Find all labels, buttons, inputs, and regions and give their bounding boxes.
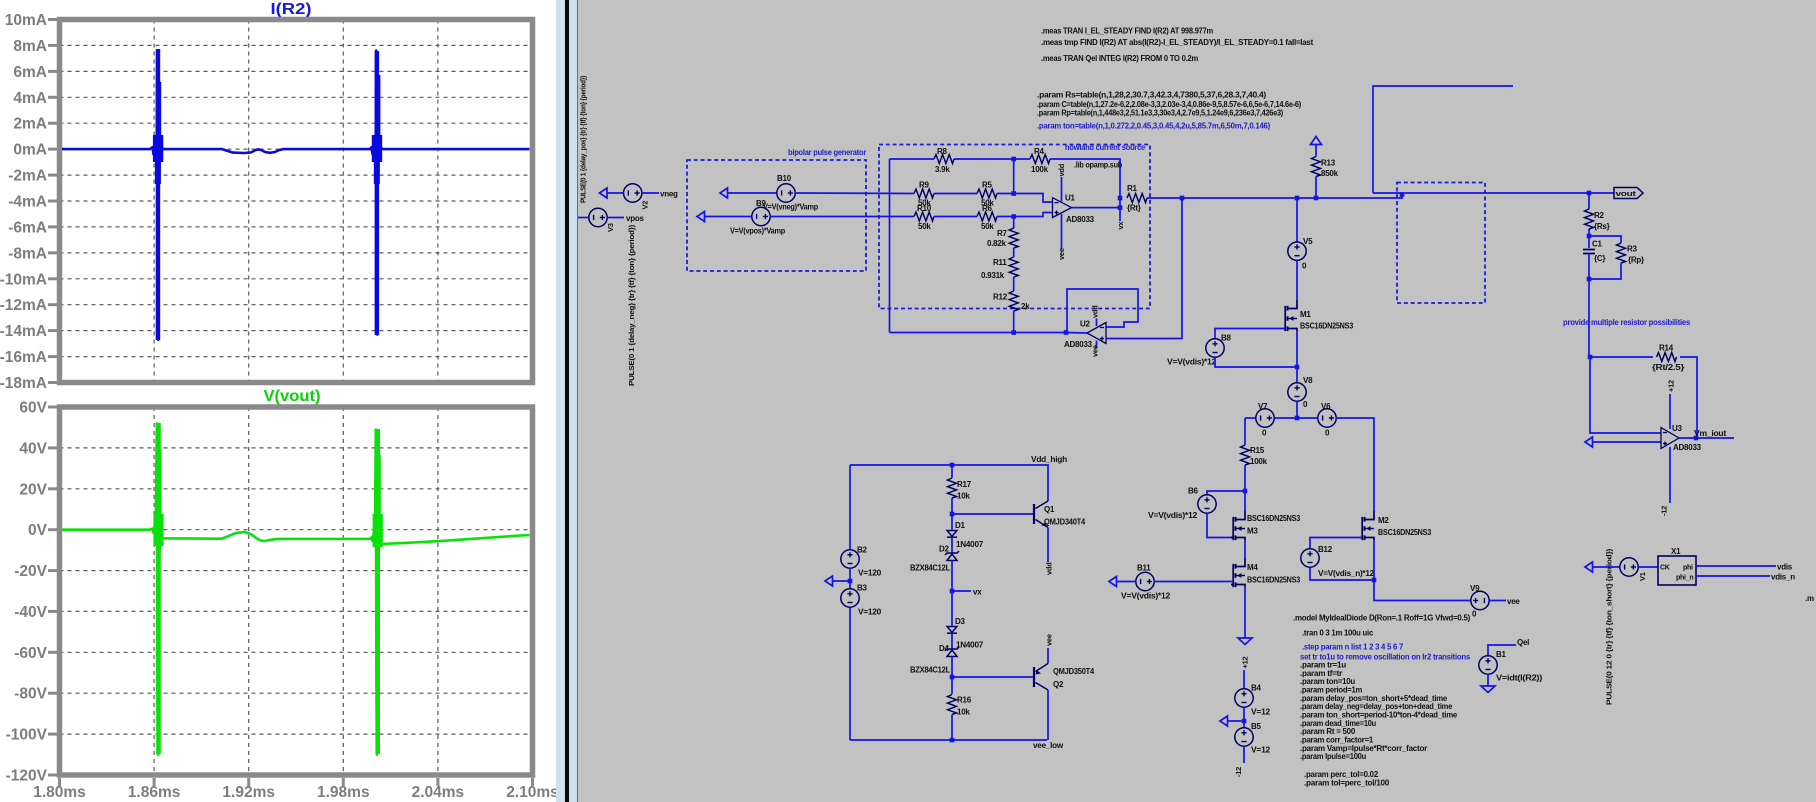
- bottom plot y labels: [6, 400, 48, 785]
- svg-text:V3: V3: [606, 223, 615, 232]
- wire: [1315, 177, 1317, 199]
- svg-text:V=V(vneg)*Vamp: V=V(vneg)*Vamp: [763, 203, 818, 212]
- svg-text:Vm_iout: Vm_iout: [1694, 429, 1727, 438]
- wire: [642, 192, 659, 194]
- wire: [1296, 367, 1298, 383]
- svg-text:X1: X1: [1671, 547, 1681, 556]
- svg-text:B2: B2: [857, 546, 868, 555]
- wire: [1590, 356, 1653, 358]
- I(R2) trace: [62, 51, 530, 340]
- wire: [1593, 441, 1662, 443]
- svg-text:-10mA: -10mA: [0, 271, 47, 288]
- svg-text:U2: U2: [1080, 320, 1091, 329]
- svg-text:+12: +12: [1241, 656, 1250, 668]
- wire: [951, 633, 953, 649]
- svg-text:R9: R9: [919, 181, 930, 190]
- voltage source V6: [1318, 409, 1336, 427]
- wire: [1013, 311, 1015, 333]
- svg-text:M4: M4: [1247, 563, 1258, 572]
- wire: [1243, 746, 1245, 763]
- svg-text:C1: C1: [1592, 240, 1603, 249]
- svg-text:R16: R16: [957, 696, 972, 705]
- svg-text:.param ton=table(n,1,0.272,2,0: .param ton=table(n,1,0.272,2,0.45,3,0.45…: [1037, 122, 1271, 131]
- svg-text:V2: V2: [641, 201, 650, 210]
- svg-text:R15: R15: [1250, 446, 1265, 455]
- svg-text:3.9k: 3.9k: [935, 165, 950, 174]
- wire: [951, 561, 953, 627]
- bsource B12: [1301, 549, 1319, 567]
- wire: [1373, 86, 1513, 193]
- voltage source V5: [1288, 242, 1306, 260]
- svg-text:M1: M1: [1300, 310, 1311, 319]
- svg-text:B9: B9: [756, 199, 767, 208]
- svg-text:1.92ms: 1.92ms: [222, 784, 275, 801]
- wire: [1638, 566, 1658, 568]
- svg-text:0.931k: 0.931k: [981, 271, 1005, 280]
- wire: [1593, 566, 1620, 568]
- nmos M3: [1236, 511, 1246, 540]
- svg-text:-16mA: -16mA: [0, 349, 47, 366]
- zener D4: [947, 650, 957, 657]
- svg-text:0.82k: 0.82k: [987, 239, 1007, 248]
- resistor R5: [977, 189, 997, 198]
- svg-text:60V: 60V: [19, 400, 47, 417]
- svg-text:20V: 20V: [19, 481, 47, 498]
- wire: [850, 739, 1047, 741]
- svg-text:-80V: -80V: [14, 686, 47, 703]
- svg-text:B11: B11: [1137, 564, 1151, 573]
- svg-text:M2: M2: [1378, 516, 1389, 525]
- ground M4: [1238, 638, 1252, 645]
- svg-text:B10: B10: [777, 174, 792, 183]
- svg-text:vpos: vpos: [626, 214, 644, 223]
- svg-text:R13: R13: [1321, 159, 1336, 168]
- voltage source V3: [589, 208, 607, 226]
- svg-text:Qel: Qel: [1517, 638, 1529, 647]
- svg-text:R5: R5: [982, 181, 993, 190]
- resistor R9: [914, 189, 934, 198]
- wire: [890, 332, 1067, 334]
- svg-text:.meas TRAN Qel INTEG I(R2) FRO: .meas TRAN Qel INTEG I(R2) FROM 0 TO 0.2…: [1041, 54, 1198, 63]
- bottom plot grid: [60, 407, 533, 775]
- svg-text:QMJD340T4: QMJD340T4: [1044, 518, 1086, 527]
- wire: [1207, 513, 1233, 537]
- svg-text:R2: R2: [1594, 211, 1605, 220]
- svg-text:4mA: 4mA: [13, 90, 47, 107]
- x axis labels: [33, 784, 559, 801]
- bsource B3: [841, 589, 859, 607]
- svg-text:1N4007: 1N4007: [956, 641, 984, 650]
- svg-text:U3: U3: [1672, 424, 1683, 433]
- junction: [950, 512, 955, 517]
- wire: [1243, 670, 1245, 689]
- wire: [1243, 707, 1245, 728]
- svg-text:vdd: vdd: [1045, 562, 1054, 575]
- resistor R12: [1009, 291, 1018, 311]
- svg-text:-12: -12: [1234, 767, 1243, 777]
- svg-text:V=120: V=120: [858, 608, 882, 617]
- bsource B1: [1479, 656, 1497, 674]
- junction: [950, 463, 955, 468]
- wire: [1047, 690, 1049, 740]
- wire: [890, 158, 935, 160]
- wire: [849, 607, 851, 740]
- op-amp U1: [1053, 198, 1072, 218]
- wire: [1296, 331, 1298, 367]
- resistor R11: [1009, 257, 1018, 277]
- junction: [1694, 436, 1699, 441]
- svg-text:40V: 40V: [19, 440, 47, 457]
- wire: [1013, 159, 1015, 194]
- wire: [1296, 198, 1298, 242]
- svg-text:R11: R11: [993, 258, 1007, 267]
- svg-text:{Rt/2.5}: {Rt/2.5}: [1652, 363, 1684, 372]
- port arrow B2/B3: [825, 576, 833, 586]
- svg-text:100k: 100k: [1250, 457, 1268, 466]
- wire: [1013, 248, 1015, 257]
- svg-text:D1: D1: [955, 521, 966, 530]
- svg-text:BSC16DN25NS3: BSC16DN25NS3: [1378, 528, 1432, 537]
- svg-text:BSC16DN25NS3: BSC16DN25NS3: [1300, 322, 1354, 331]
- wire: [1669, 447, 1671, 503]
- wire: [1296, 260, 1298, 300]
- wire: [1106, 198, 1182, 339]
- svg-text:1N4007: 1N4007: [956, 540, 984, 549]
- junction: [1064, 330, 1069, 335]
- svg-text:R3: R3: [1627, 245, 1638, 254]
- dashed box howland current source: [879, 145, 1150, 309]
- svg-text:AD8033: AD8033: [1673, 443, 1702, 452]
- top plot grid: [60, 20, 533, 383]
- svg-text:.meas TRAN I_EL_STEADY FIND I(: .meas TRAN I_EL_STEADY FIND I(R2) AT 998…: [1041, 27, 1213, 36]
- svg-text:+12: +12: [1667, 380, 1676, 392]
- svg-text:vneg: vneg: [660, 190, 678, 199]
- wire: [951, 498, 953, 514]
- svg-text:V7: V7: [1258, 402, 1268, 411]
- wire: [1373, 192, 1614, 194]
- junction: [1243, 489, 1248, 494]
- bsource B5: [1235, 728, 1253, 746]
- junction: [1587, 234, 1592, 239]
- wire: [1274, 417, 1318, 419]
- diode D3: [947, 627, 957, 633]
- svg-text:R14: R14: [1659, 344, 1674, 353]
- svg-text:V=V(vdis_n)*12: V=V(vdis_n)*12: [1318, 569, 1375, 578]
- svg-text:.step param n list 1 2 3 4 5 6: .step param n list 1 2 3 4 5 6 7: [1302, 643, 1404, 652]
- wire: [607, 217, 624, 219]
- wire: [1590, 357, 1661, 433]
- svg-text:{Rp}: {Rp}: [1628, 256, 1644, 265]
- svg-text:2.04ms: 2.04ms: [412, 784, 465, 801]
- ground B1: [1481, 686, 1495, 693]
- svg-text:vee: vee: [1091, 345, 1100, 357]
- svg-text:QMJD350T4: QMJD350T4: [1053, 667, 1095, 676]
- svg-text:0mA: 0mA: [13, 142, 47, 159]
- svg-text:.m: .m: [1805, 594, 1814, 603]
- svg-text:-14mA: -14mA: [0, 323, 47, 340]
- junction: [1587, 191, 1592, 196]
- svg-text:{Rs}: {Rs}: [1594, 222, 1610, 231]
- svg-text:-18mA: -18mA: [0, 375, 47, 392]
- nmos M1: [1288, 300, 1298, 331]
- zener D2: [947, 554, 957, 561]
- bsource B11: [1136, 572, 1154, 590]
- svg-text:Vdd_high: Vdd_high: [1031, 455, 1067, 464]
- svg-text:howland current source: howland current source: [1065, 143, 1146, 152]
- wire: [1096, 341, 1098, 349]
- wire: [952, 590, 971, 592]
- wire: [1013, 277, 1015, 291]
- svg-text:V=12: V=12: [1251, 746, 1271, 755]
- svg-text:U1: U1: [1065, 194, 1076, 203]
- junction: [1295, 365, 1300, 370]
- wire: [951, 657, 953, 695]
- svg-text:V=V(vdis)*12: V=V(vdis)*12: [1121, 592, 1171, 601]
- capacitor C1: [1583, 250, 1595, 254]
- svg-text:vee: vee: [1057, 248, 1066, 260]
- svg-text:CK: CK: [1660, 565, 1670, 572]
- svg-text:2.10ms: 2.10ms: [506, 784, 556, 801]
- resistor R3: [1617, 243, 1626, 263]
- resistor R4: [1030, 155, 1050, 164]
- wire: [1047, 648, 1049, 664]
- resistor R1: [1127, 194, 1147, 203]
- op-amp U3: [1661, 428, 1679, 449]
- junction: [1588, 355, 1593, 360]
- wire: [1013, 217, 1015, 229]
- bsource B6: [1198, 495, 1216, 513]
- junction: [1295, 196, 1300, 201]
- resistor R2: [1585, 209, 1594, 229]
- wire: [997, 213, 1053, 217]
- wire: [1047, 528, 1049, 563]
- nmos M4: [1236, 558, 1246, 587]
- voltage source V1: [1620, 558, 1638, 576]
- svg-text:I(R2): I(R2): [271, 1, 312, 18]
- svg-text:AD8033: AD8033: [1064, 340, 1093, 349]
- svg-text:V1: V1: [1638, 572, 1647, 581]
- svg-text:V(vout): V(vout): [264, 388, 321, 405]
- wire: [850, 465, 1048, 501]
- wire: [951, 514, 953, 531]
- svg-text:B5: B5: [1251, 722, 1262, 731]
- svg-text:10mA: 10mA: [5, 12, 47, 29]
- wire: [1245, 417, 1256, 419]
- svg-text:50k: 50k: [918, 222, 931, 231]
- resistor R7: [1009, 228, 1018, 248]
- svg-text:2k: 2k: [1021, 302, 1030, 311]
- svg-text:{Rt}: {Rt}: [1127, 204, 1141, 213]
- bsource B9: [752, 207, 770, 225]
- wire: [1588, 229, 1590, 248]
- junction: [950, 675, 955, 680]
- wire: [1310, 567, 1374, 580]
- wire: [1669, 394, 1671, 429]
- wire: [1050, 159, 1120, 221]
- wire: [1207, 491, 1245, 495]
- junction: [1118, 205, 1123, 210]
- bsource B2: [841, 550, 859, 568]
- svg-text:vout: vout: [1616, 189, 1637, 198]
- wire: [1066, 332, 1087, 335]
- voltage source V8: [1288, 383, 1306, 401]
- svg-text:-12mA: -12mA: [0, 297, 47, 314]
- svg-text:.param Rp=table(n,1,448e3,2,51: .param Rp=table(n,1,448e3,2,51.1e3,3,30e…: [1037, 109, 1284, 118]
- junction: [950, 738, 955, 743]
- top plot y labels: [0, 12, 47, 392]
- dashed box (resistor possibilities): [1397, 183, 1485, 304]
- subckt X1 box: [1658, 556, 1696, 585]
- wire: [951, 715, 953, 741]
- wire: [1244, 587, 1246, 638]
- svg-text:V9: V9: [1470, 584, 1480, 593]
- svg-text:B1: B1: [1496, 650, 1507, 659]
- junction: [1295, 416, 1300, 421]
- svg-text:10k: 10k: [957, 708, 970, 717]
- svg-text:D3: D3: [955, 617, 966, 626]
- svg-text:-6mA: -6mA: [8, 219, 47, 236]
- svg-text:B8: B8: [1221, 334, 1232, 343]
- net flag (up triangle): [1311, 137, 1322, 145]
- wire: [1679, 437, 1734, 439]
- op-amp U2: [1087, 323, 1106, 344]
- wire: [1696, 575, 1770, 577]
- svg-text:V8: V8: [1303, 376, 1313, 385]
- junction: [1011, 157, 1016, 162]
- svg-text:.tran 0 3 1m 100u uic: .tran 0 3 1m 100u uic: [1302, 629, 1374, 638]
- wire: [1680, 357, 1697, 438]
- wire: [1489, 600, 1506, 602]
- junction: [1180, 196, 1185, 201]
- junction: [1314, 196, 1319, 201]
- svg-text:V6: V6: [1321, 402, 1331, 411]
- junction: [1242, 719, 1247, 724]
- svg-text:.lib opamp.sub: .lib opamp.sub: [1074, 161, 1122, 170]
- wire: [1374, 540, 1471, 601]
- wire: [1315, 145, 1317, 157]
- svg-text:-4mA: -4mA: [8, 194, 47, 211]
- wire: [1310, 538, 1362, 550]
- junction: [1011, 330, 1016, 335]
- output flag vout: [1614, 188, 1643, 199]
- svg-text:BZX84C12L: BZX84C12L: [910, 564, 950, 573]
- svg-text:8mA: 8mA: [13, 38, 47, 55]
- resistor R8: [934, 155, 954, 164]
- wire: [1487, 674, 1489, 686]
- wire: [954, 158, 1030, 160]
- wire: [770, 216, 914, 218]
- svg-text:B12: B12: [1318, 545, 1333, 554]
- svg-text:bipolar pulse generator: bipolar pulse generator: [788, 148, 866, 157]
- I(R2) spike bars: [153, 49, 382, 340]
- wire: [1072, 207, 1121, 209]
- svg-text:-60V: -60V: [14, 645, 47, 662]
- svg-text:V5: V5: [1303, 237, 1313, 246]
- wire: [1589, 236, 1621, 243]
- resistor R14: [1657, 353, 1677, 362]
- svg-text:BZX84C12L: BZX84C12L: [910, 666, 950, 675]
- svg-text:10k: 10k: [957, 492, 970, 501]
- wire: [951, 537, 953, 553]
- svg-text:850k: 850k: [1321, 169, 1339, 178]
- npn Q1: [1033, 504, 1035, 524]
- junction: [950, 589, 955, 594]
- svg-text:.param Rs=table(n,1,28,2,30.7,: .param Rs=table(n,1,28,2,30.7,3,42.3,4,7…: [1037, 91, 1267, 100]
- svg-text:phi_n: phi_n: [1676, 575, 1693, 582]
- junction: [1011, 214, 1016, 219]
- svg-text:AD8033: AD8033: [1066, 215, 1095, 224]
- svg-text:M3: M3: [1247, 527, 1258, 536]
- wire: [1215, 357, 1297, 367]
- resistor R13: [1312, 157, 1321, 177]
- junction: [848, 579, 853, 584]
- nmos M2: [1365, 511, 1375, 540]
- svg-text:PULSE(0 1 {delay_neg} {tr} {tf: PULSE(0 1 {delay_neg} {tr} {tf} {ton} {p…: [627, 224, 636, 386]
- wire: [849, 465, 851, 550]
- svg-text:R6: R6: [982, 204, 993, 213]
- svg-text:-20V: -20V: [14, 563, 47, 580]
- junction: [1587, 277, 1592, 282]
- port arrow V1: [1585, 562, 1593, 572]
- svg-text:R8: R8: [937, 147, 948, 156]
- svg-text:V=12: V=12: [1251, 708, 1271, 717]
- wire: [1061, 214, 1063, 249]
- svg-text:6mA: 6mA: [13, 64, 47, 81]
- bsource B8: [1206, 339, 1224, 357]
- junction: [1372, 578, 1377, 583]
- svg-text:R7: R7: [997, 229, 1008, 238]
- wire: [1244, 540, 1246, 558]
- svg-text:Q1: Q1: [1044, 505, 1055, 514]
- wire: [1588, 193, 1590, 209]
- svg-text:R4: R4: [1034, 147, 1045, 156]
- wire: [934, 193, 977, 195]
- svg-text:1.80ms: 1.80ms: [33, 784, 86, 801]
- svg-text:BSC16DN25NS3: BSC16DN25NS3: [1247, 514, 1301, 523]
- svg-text:provide multiple resistor poss: provide multiple resistor possibilities: [1563, 318, 1691, 327]
- wire: [1244, 465, 1246, 491]
- svg-text:vx: vx: [1116, 221, 1125, 230]
- wire: [607, 192, 624, 194]
- svg-text:B6: B6: [1188, 487, 1199, 496]
- junction: [1400, 192, 1405, 197]
- wire: [728, 192, 778, 194]
- voltage source V9: [1471, 591, 1489, 609]
- svg-text:phi: phi: [1683, 565, 1693, 572]
- svg-text:-120V: -120V: [6, 768, 48, 785]
- pnp Q2: [1033, 667, 1035, 687]
- port arrow B4/B5: [1220, 716, 1228, 726]
- svg-text:100k: 100k: [1031, 165, 1049, 174]
- top plot border: [60, 20, 533, 383]
- voltage source V7: [1256, 409, 1274, 427]
- svg-text:R17: R17: [957, 480, 972, 489]
- svg-text:B4: B4: [1251, 684, 1262, 693]
- svg-text:1.98ms: 1.98ms: [317, 784, 370, 801]
- wire: [1117, 581, 1136, 583]
- svg-text:vee: vee: [1507, 597, 1520, 606]
- resistor R6: [977, 212, 997, 221]
- svg-text:-40V: -40V: [14, 604, 47, 621]
- svg-text:V=120: V=120: [858, 569, 882, 578]
- resistor R17: [948, 478, 957, 498]
- resistor R15: [1241, 445, 1250, 465]
- svg-text:1.86ms: 1.86ms: [128, 784, 181, 801]
- port arrow B11: [1109, 577, 1117, 587]
- svg-text:R1: R1: [1127, 184, 1138, 193]
- svg-text:vee: vee: [1045, 634, 1054, 646]
- wire: [578, 217, 589, 219]
